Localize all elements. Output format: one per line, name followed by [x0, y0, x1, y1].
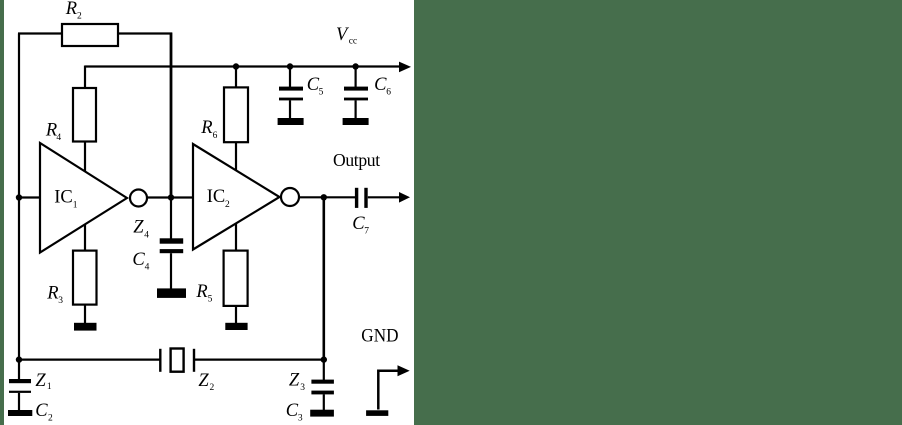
svg-text:R: R: [200, 118, 212, 138]
svg-text:5: 5: [319, 87, 324, 97]
svg-text:Z: Z: [289, 370, 300, 390]
svg-text:R: R: [195, 282, 207, 302]
svg-text:Z: Z: [35, 371, 46, 391]
svg-text:6: 6: [386, 87, 391, 97]
svg-text:R: R: [65, 0, 77, 19]
svg-text:C: C: [35, 401, 48, 421]
svg-text:Z: Z: [198, 371, 209, 391]
svg-text:4: 4: [56, 133, 61, 143]
svg-text:Z: Z: [133, 217, 144, 237]
svg-text:R: R: [46, 283, 58, 303]
svg-text:Output: Output: [333, 150, 380, 170]
svg-text:C: C: [132, 250, 145, 270]
svg-text:C: C: [286, 401, 299, 421]
svg-text:2: 2: [77, 12, 82, 22]
svg-text:1: 1: [47, 382, 52, 392]
svg-text:7: 7: [364, 226, 369, 236]
svg-text:2: 2: [210, 383, 215, 393]
svg-text:GND: GND: [361, 327, 398, 347]
svg-text:4: 4: [145, 262, 150, 272]
svg-text:2: 2: [48, 414, 53, 424]
svg-text:cc: cc: [349, 36, 357, 46]
svg-text:IC: IC: [54, 188, 72, 208]
svg-text:3: 3: [298, 413, 303, 423]
svg-text:IC: IC: [207, 187, 226, 207]
svg-text:C: C: [374, 75, 387, 95]
svg-text:5: 5: [208, 294, 213, 304]
svg-text:3: 3: [300, 383, 305, 393]
svg-text:3: 3: [58, 296, 63, 306]
svg-text:1: 1: [73, 200, 78, 210]
svg-text:2: 2: [225, 200, 230, 210]
svg-text:R: R: [45, 121, 57, 141]
svg-text:6: 6: [213, 131, 218, 141]
svg-text:4: 4: [144, 231, 149, 241]
